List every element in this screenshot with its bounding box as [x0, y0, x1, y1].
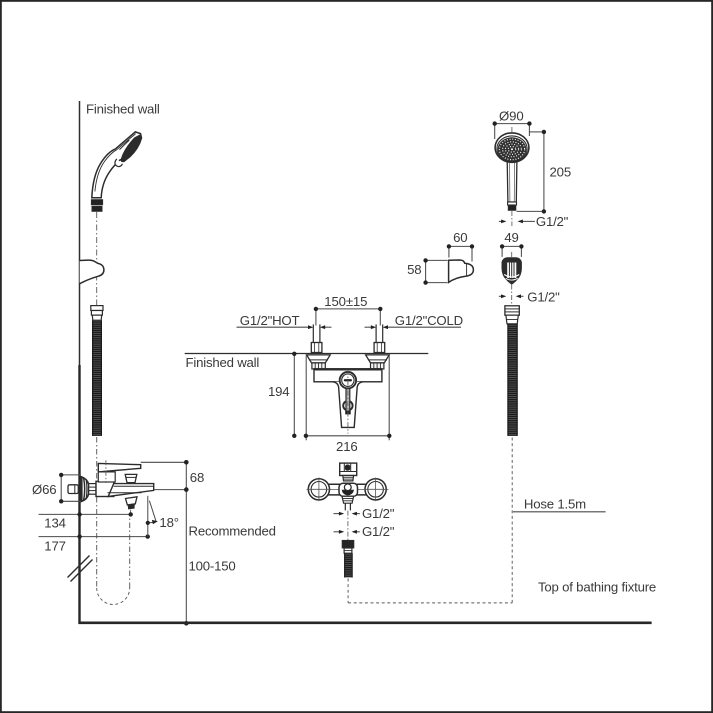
- dimension 194: [293, 354, 295, 436]
- bath mixer side view : wall nut: [89, 484, 96, 495]
- label G1/2" (hand shower thread): [499, 220, 535, 222]
- finished wall line (center drawing): [185, 353, 429, 355]
- dimension Ø66: [61, 475, 81, 501]
- bath mixer side view : escutcheon (Ø66): [81, 477, 89, 502]
- mixer bottom view : body capsule: [313, 484, 381, 495]
- mixer front view : body bar: [314, 369, 382, 382]
- mixer bottom view : centre block with diverter: [339, 483, 358, 496]
- mixer bottom view : centre cross lines: [307, 488, 389, 490]
- bath mixer side view : eccentric connector behind wall: [68, 485, 78, 494]
- svg-text:Top of bathing fixture: Top of bathing fixture: [538, 579, 656, 594]
- svg-text:205: 205: [550, 165, 572, 180]
- center line: elbow axis: [511, 252, 513, 258]
- center line: aerator stream (dashed down): [130, 510, 132, 514]
- hand shower front view : head: [495, 133, 529, 162]
- ribbed nut (cold): [371, 363, 384, 369]
- bath mixer side view : diverter knob: [125, 474, 137, 482]
- dimension 58 (bracket height): [426, 260, 448, 282]
- svg-text:100-150: 100-150: [189, 559, 236, 574]
- svg-text:Recommended: Recommended: [189, 524, 276, 539]
- dimension 150±15: [316, 309, 380, 326]
- mixer bottom view : left escutcheon circles: [307, 478, 331, 502]
- hand shower (hanging, side view): [91, 132, 141, 212]
- svg-text:Hose 1.5m: Hose 1.5m: [524, 496, 586, 511]
- hose nut (left hose, upper): [91, 306, 103, 321]
- hose (left, hanging on wall): [93, 320, 102, 436]
- bath mixer side view : aerator outlet: [126, 497, 138, 509]
- dimension 49 (elbow width): [502, 246, 521, 257]
- center line: mixer axis (front view): [347, 370, 349, 434]
- dashed hose route to wall outlet: [348, 437, 512, 603]
- svg-text:G1/2"COLD: G1/2"COLD: [395, 313, 463, 328]
- dimension 68 : extension lines: [141, 462, 187, 489]
- svg-text:G1/2"HOT: G1/2"HOT: [240, 313, 300, 328]
- dimension 18° (spout angle): [148, 496, 156, 537]
- svg-text:G1/2": G1/2": [362, 524, 395, 539]
- dimension 60 (bracket depth): [449, 246, 472, 261]
- mixer front view : cartridge cap circle: [340, 372, 356, 388]
- dimension Ø90: [495, 124, 530, 139]
- ribbed nut (hot): [312, 363, 325, 369]
- svg-text:177: 177: [44, 539, 66, 554]
- svg-text:216: 216: [336, 439, 358, 454]
- svg-text:G1/2": G1/2": [362, 506, 395, 521]
- center line: cartridge axis (side view): [105, 460, 107, 483]
- hose (right, hanging): [508, 324, 517, 436]
- mixer front view : lever shaft: [345, 389, 351, 415]
- dimension 134 (wall to aerator): [39, 513, 131, 515]
- top of bathing fixture line: [78, 621, 651, 624]
- wall elbow / shower outlet (front view, 49): [502, 258, 521, 284]
- center line: outlet axis (bottom view): [347, 511, 349, 540]
- escutcheon (hot, front): [307, 355, 331, 363]
- bath mixer side view : lever handle: [98, 463, 140, 482]
- mixer bottom view : handle neck: [343, 476, 354, 481]
- bath mixer side view : body: [96, 481, 114, 496]
- mixer front view : spout taper: [333, 382, 363, 428]
- svg-text:60: 60: [453, 230, 467, 245]
- svg-text:49: 49: [504, 230, 518, 245]
- svg-text:68: 68: [190, 470, 204, 485]
- svg-text:134: 134: [44, 516, 66, 531]
- label G1/2" (elbow thread): [499, 295, 524, 297]
- hose stub (bottom view): [345, 553, 353, 577]
- dimension line right (68 / Recommended 100-150): [185, 462, 187, 623]
- pipe nut (cold): [374, 343, 385, 353]
- svg-text:18°: 18°: [159, 515, 179, 530]
- mixer bottom view : outlet cup: [342, 496, 354, 503]
- center line: hand shower to bracket: [96, 212, 98, 306]
- wall line (left, finished wall): [79, 101, 81, 624]
- mixer front view : diverter ring: [343, 401, 352, 410]
- dashed hose loop (left, recommended hang): [97, 437, 130, 605]
- mixer bottom view : right escutcheon circles: [364, 478, 388, 502]
- dimension 216: [306, 356, 389, 441]
- hose connector (bottom view): [342, 540, 354, 553]
- svg-text:58: 58: [407, 262, 421, 277]
- bath mixer side view : spout (18° tilt): [108, 484, 154, 497]
- mixer bottom view : handle: [340, 463, 357, 475]
- svg-text:G1/2": G1/2": [527, 289, 560, 304]
- svg-text:Finished wall: Finished wall: [86, 101, 160, 116]
- svg-text:G1/2": G1/2": [536, 214, 569, 229]
- pipe nut (hot): [311, 343, 322, 353]
- center line: hand shower axis (front): [511, 127, 513, 226]
- dimension 205: [517, 132, 544, 212]
- escutcheon (cold, front): [366, 355, 390, 363]
- svg-text:Ø66: Ø66: [32, 482, 56, 497]
- supply pipe (cold, right): [376, 324, 383, 342]
- wall bracket (side view, 60x58): [449, 260, 474, 282]
- svg-text:150±15: 150±15: [324, 294, 367, 309]
- svg-text:Finished wall: Finished wall: [186, 355, 260, 370]
- hand shower front view : handle: [507, 161, 517, 211]
- dimension 177 (wall to spout tip): [39, 536, 148, 538]
- mixer bottom view : outlet stem: [345, 503, 350, 510]
- label G1/2" (hose connection): [334, 531, 360, 533]
- supply pipe (hot, left): [313, 324, 320, 342]
- svg-text:Ø90: Ø90: [499, 109, 523, 124]
- label G1/2" (outlet stem): [334, 513, 360, 515]
- hose nut (right hose): [505, 306, 519, 324]
- wall break symbol: [68, 556, 93, 582]
- svg-text:194: 194: [268, 384, 290, 399]
- shower bracket on wall (side view): [80, 260, 104, 284]
